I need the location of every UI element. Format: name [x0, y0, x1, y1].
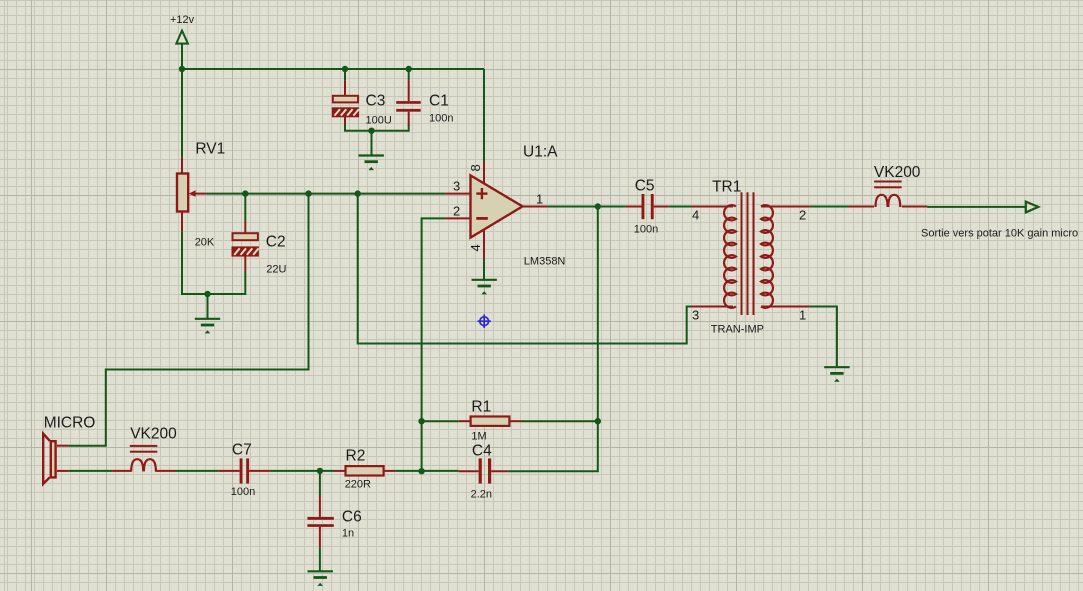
svg-text:1n: 1n — [342, 528, 354, 540]
svg-text:8: 8 — [468, 164, 483, 171]
svg-text:3: 3 — [453, 179, 460, 194]
svg-text:4: 4 — [468, 244, 483, 251]
transformer TR1 secondary pin 1 stub — [761, 306, 809, 308]
svg-text:C7: C7 — [232, 442, 252, 459]
ground under RV1/C2 — [195, 319, 220, 334]
node output junction — [595, 203, 601, 209]
svg-text:100n: 100n — [634, 224, 658, 236]
wire top supply rail horizontal — [182, 68, 484, 70]
wire U1 pin4 to ground — [483, 259, 485, 279]
wire R1 right — [522, 420, 598, 422]
svg-text:C4: C4 — [472, 443, 492, 460]
svg-text:4: 4 — [692, 208, 699, 223]
wire op-amp output to C5 — [548, 206, 626, 208]
svg-text:1: 1 — [536, 192, 543, 207]
wire stub to ground — [207, 294, 209, 318]
wire noninverting input bus — [207, 193, 446, 195]
wire TR1 pin2 to VK200 — [809, 206, 848, 208]
resistor R2 (220R) — [334, 466, 396, 475]
transformer TR1 primary pin 3 stub — [692, 306, 734, 308]
wire noninverting branch down and across to TR1 pin3 — [358, 194, 692, 344]
op-amp U1:A triangle — [471, 175, 523, 237]
svg-text:R1: R1 — [471, 399, 491, 416]
wire mic bottom pin to VK200 — [69, 470, 113, 472]
wire stub to ground — [371, 131, 373, 155]
svg-text:U1:A: U1:A — [523, 144, 558, 161]
svg-text:220R: 220R — [345, 479, 371, 491]
ground under C6 — [308, 571, 333, 586]
power symbol +12v — [170, 14, 195, 44]
svg-text:TR1: TR1 — [712, 179, 741, 196]
wire supply down to U1 pin 8 — [483, 69, 485, 162]
wire R2 to feedback node — [396, 470, 459, 472]
wire C3/C1 bottom bus — [345, 124, 409, 131]
svg-text:1: 1 — [799, 308, 806, 323]
ground under TR1 secondary — [824, 367, 849, 382]
capacitor C6 (1n) — [307, 471, 333, 571]
svg-text:LM358N: LM358N — [524, 256, 566, 268]
svg-text:VK200: VK200 — [130, 426, 177, 443]
wire TR1 pin1 to ground — [809, 307, 837, 367]
capacitor C3 (electrolytic 100U) — [333, 69, 359, 126]
output terminal arrow — [1026, 202, 1039, 213]
pin 1 output stub — [523, 206, 548, 208]
potentiometer RV1 — [177, 157, 207, 231]
node supply/RV1 junction — [179, 66, 185, 72]
svg-text:C1: C1 — [429, 93, 449, 110]
node C2 junction — [242, 190, 248, 196]
wire inverting input to feedback column — [422, 218, 446, 471]
wire +12v rail vertical into RV1 — [181, 44, 183, 158]
transformer TR1 core lines — [742, 192, 754, 315]
transformer TR1 primary pin 4 stub — [692, 206, 734, 208]
ground under op-amp — [472, 280, 497, 295]
node RV1/C2 ground junction — [204, 291, 210, 297]
node feedback branch junction — [355, 190, 361, 196]
svg-text:100U: 100U — [366, 115, 392, 127]
node C6 junction — [317, 468, 323, 474]
pin 8 stub — [483, 162, 485, 185]
svg-text:100n: 100n — [231, 486, 255, 498]
capacitor C7 (100n) — [219, 458, 271, 483]
ground under C3/C1 — [359, 156, 384, 171]
capacitor C5 (100n) — [626, 194, 669, 219]
svg-text:Sortie vers potar 10K gain mic: Sortie vers potar 10K gain micro — [921, 228, 1078, 240]
origin marker (blue) — [478, 315, 491, 328]
svg-text:3: 3 — [692, 308, 699, 323]
svg-text:2: 2 — [799, 208, 806, 223]
svg-text:MICRO: MICRO — [44, 415, 96, 432]
transformer TR1 secondary pin 2 stub — [761, 206, 809, 208]
op-amp plus input marker — [476, 188, 487, 199]
pin 2 stub — [446, 217, 471, 219]
svg-text:VK200: VK200 — [874, 164, 921, 181]
svg-text:2: 2 — [453, 204, 460, 219]
microphone MICRO symbol — [43, 434, 68, 484]
node R1 left junction — [418, 418, 424, 424]
resistor R1 (1M) — [459, 417, 522, 426]
pin 3 stub — [446, 193, 471, 195]
svg-text:C3: C3 — [366, 93, 386, 110]
node decoupling ground junction — [368, 128, 374, 134]
op-amp minus input marker — [476, 217, 488, 220]
capacitor C2 (electrolytic 22U) — [233, 194, 259, 272]
wire VK200 to C7 — [176, 470, 219, 472]
svg-text:C2: C2 — [266, 234, 286, 251]
capacitor C4 (2.2n) — [459, 458, 509, 483]
svg-text:R2: R2 — [346, 448, 366, 465]
transformer TR1 secondary winding — [761, 205, 773, 308]
svg-text:+12v: +12v — [170, 14, 195, 26]
wire C7 to R2 — [270, 470, 334, 472]
pin 4 stub — [483, 230, 485, 259]
wire C5 to TR1 pin 4 — [669, 206, 692, 208]
wire output down to R1/C4 column — [508, 207, 598, 472]
svg-text:1M: 1M — [471, 431, 486, 443]
capacitor C1 (100n) — [396, 69, 421, 126]
transformer TR1 primary winding — [724, 205, 736, 308]
svg-text:RV1: RV1 — [195, 141, 225, 158]
svg-text:TRAN-IMP: TRAN-IMP — [711, 324, 764, 336]
node C1 top junction — [406, 66, 412, 72]
node R1 right junction — [595, 418, 601, 424]
svg-text:20K: 20K — [195, 237, 215, 249]
svg-text:2.2n: 2.2n — [471, 489, 492, 501]
svg-text:100n: 100n — [429, 113, 453, 125]
wire VK200 to output terminal — [927, 206, 1026, 208]
svg-text:C5: C5 — [635, 178, 655, 195]
inductor VK200 (output ferrite bead) — [849, 181, 928, 208]
svg-text:C6: C6 — [342, 509, 362, 526]
svg-text:22U: 22U — [266, 264, 286, 276]
wire R1 left — [422, 420, 459, 422]
node C3 top junction — [342, 66, 348, 72]
node mic branch junction — [305, 190, 311, 196]
wire RV1 bottom to C2 bottom — [182, 231, 245, 294]
inductor VK200 (mic ferrite bead) — [112, 445, 175, 472]
node feedback bottom junction — [418, 468, 424, 474]
wire mic top pin up to + bus — [69, 194, 309, 446]
